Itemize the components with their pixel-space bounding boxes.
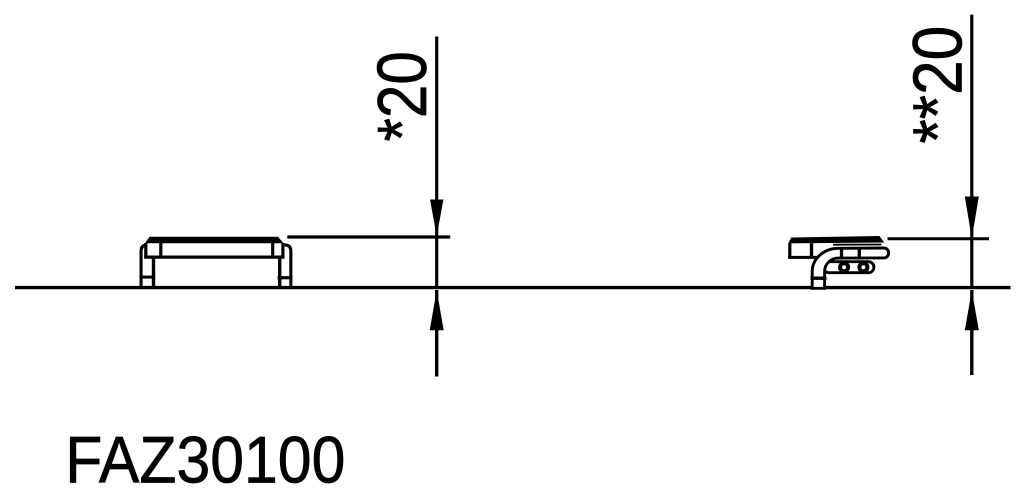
right dimension: extension line: [888, 237, 990, 240]
ground line: [15, 286, 1011, 289]
frame box left edge: [152, 259, 155, 289]
svg-text:FAZ30100: FAZ30100: [65, 424, 345, 494]
left lower pointer line: [435, 290, 438, 377]
bolt right: [859, 263, 867, 271]
svg-text:**20: **20: [899, 26, 977, 144]
svg-text:*20: *20: [363, 51, 441, 141]
right platform: end view group: [788, 243, 881, 258]
right lower arrowhead up: [965, 290, 979, 330]
plate band right cap: [281, 243, 284, 258]
right lower pointer line: [970, 290, 973, 375]
left leg: [141, 245, 147, 289]
left dimension: extension line: [287, 235, 450, 238]
left foot line: [140, 276, 156, 279]
left dimension arrowhead down: [430, 200, 443, 237]
tube divider 2: [858, 247, 861, 259]
left dimension line: [435, 37, 438, 288]
band left cap: [788, 243, 791, 258]
band divider: [810, 243, 813, 257]
plate band bottom line: [144, 256, 284, 259]
top plate bar (end view): [788, 236, 884, 243]
top plate bar (left view): [145, 237, 284, 243]
plate band divider right: [271, 243, 274, 257]
right foot line: [278, 276, 293, 279]
left platform: side view group: [140, 243, 293, 289]
right dimension arrowhead down: [965, 197, 979, 239]
tube foot line: [811, 277, 827, 280]
right leg: [285, 245, 291, 289]
bolt left: [840, 263, 848, 271]
curved leg tube (end view): [812, 248, 889, 288]
tube divider 1: [840, 247, 843, 259]
left lower arrowhead up: [430, 290, 444, 330]
right dimension line: [970, 15, 973, 288]
plate band divider left: [159, 243, 162, 257]
anchor capsule with bolts: [824, 262, 874, 273]
plate underside thin line: [833, 244, 881, 246]
band bottom line: [788, 256, 820, 259]
plate band left cap: [144, 243, 147, 258]
frame box right edge: [278, 259, 281, 289]
